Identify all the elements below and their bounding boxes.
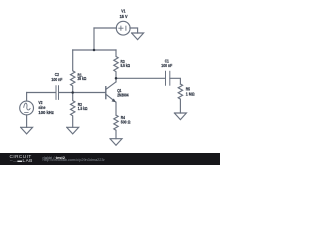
resistor R3 [114, 50, 118, 78]
ground below R5 [174, 113, 186, 120]
node base junction [71, 91, 74, 94]
node supply junction [93, 49, 96, 52]
wire V1 to ground [130, 28, 138, 33]
wire supply drop [93, 28, 95, 50]
watermark text line 1 [43, 155, 65, 160]
svg-text:1 MΩ: 1 MΩ [186, 91, 195, 96]
svg-text:V1: V1 [121, 8, 126, 13]
svg-text:15 V: 15 V [120, 14, 128, 19]
wire output row [116, 77, 165, 79]
resistor R1 [71, 50, 75, 93]
wire bias rail [73, 49, 116, 51]
resistor R2 [71, 93, 75, 128]
svg-text:500 Ω: 500 Ω [121, 120, 131, 125]
wire C1 to R5 [170, 78, 181, 84]
svg-text:25 kΩ: 25 kΩ [78, 76, 87, 81]
source V1 [116, 21, 130, 35]
ground below R4 [110, 139, 122, 146]
ground below V2 [21, 127, 33, 134]
capacitor C2 [55, 86, 57, 100]
watermark bar [0, 153, 220, 165]
ground at V1 [132, 33, 144, 40]
wire input row right [59, 92, 106, 94]
svg-text:100 kHz: 100 kHz [38, 110, 54, 115]
watermark text line 2 [43, 158, 105, 162]
transistor Q1 [105, 87, 107, 99]
source V2 [26, 93, 28, 102]
wire top rail V+ [94, 27, 117, 29]
svg-text:5.5 kΩ: 5.5 kΩ [121, 63, 131, 68]
node collector junction [115, 77, 118, 80]
wire input row left [27, 92, 56, 94]
resistor R5 [178, 84, 182, 113]
capacitor C1 [165, 71, 167, 85]
svg-text:1.5 kΩ: 1.5 kΩ [78, 106, 88, 111]
svg-text:100 nF: 100 nF [51, 77, 62, 82]
svg-text:100 nF: 100 nF [161, 63, 172, 68]
svg-text:2N3904: 2N3904 [117, 93, 129, 98]
CircuitLab logo [10, 155, 40, 165]
resistor R4 [114, 115, 118, 139]
ground below R2 [67, 127, 79, 134]
